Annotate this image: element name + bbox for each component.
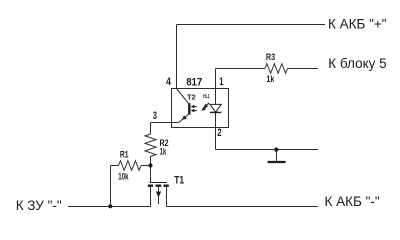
- junction node ground tap: [274, 148, 278, 152]
- light arrow into base lower: [191, 109, 197, 113]
- svg-text:T2: T2: [187, 94, 196, 101]
- wire pin 3 stub: [151, 122, 179, 124]
- wire to battery plus (top horizontal): [177, 24, 326, 26]
- LED emission arrow upper: [204, 103, 210, 108]
- transistor T1 channel dash drain: [164, 184, 169, 186]
- LED HL1 cathode bar: [210, 111, 221, 113]
- svg-text:1k: 1k: [266, 74, 275, 84]
- wire bottom rail right (to K AKB minus): [167, 206, 319, 208]
- wire R1 right lead: [141, 165, 151, 167]
- transistor T1 source vertical: [150, 187, 152, 207]
- svg-text:3: 3: [153, 110, 157, 122]
- wire LED cathode segment inside box: [215, 112, 217, 127]
- wire R3 left lead: [216, 68, 266, 70]
- svg-text:R3: R3: [266, 52, 275, 62]
- svg-text:К АКБ "-": К АКБ "-": [325, 194, 380, 209]
- svg-text:HL1: HL1: [203, 94, 210, 100]
- svg-text:К блоку 5: К блоку 5: [328, 56, 386, 71]
- wire pin 1 vertical: [215, 69, 217, 89]
- wire pin 4 vertical: [176, 25, 178, 89]
- LED HL1 triangle: [210, 104, 221, 112]
- wire LED anode segment inside box: [215, 89, 217, 105]
- light arrow into base upper: [191, 105, 197, 109]
- transistor T2 emitter line: [179, 114, 190, 123]
- transistor T1 channel dash bulk: [156, 184, 162, 186]
- LED emission arrow lower: [202, 106, 208, 111]
- svg-text:R1: R1: [120, 149, 129, 159]
- transistor T1 gate plate: [150, 182, 167, 184]
- wire R3 right lead to block 5: [288, 68, 319, 70]
- wire bottom rail left (from K ZU minus): [68, 206, 151, 208]
- svg-text:2: 2: [217, 127, 221, 139]
- wire left vertical from R1 to bottom rail: [110, 166, 112, 207]
- resistor R3: [265, 64, 288, 74]
- resistor R2: [145, 134, 156, 157]
- svg-text:К ЗУ "-": К ЗУ "-": [16, 198, 62, 213]
- wire R1 left lead: [111, 165, 119, 167]
- transistor T2 emitter arrowhead: [182, 115, 187, 120]
- wire R2 bottom lead: [150, 157, 152, 166]
- svg-text:T1: T1: [174, 175, 184, 187]
- wire T1 gate lead: [150, 166, 152, 183]
- transistor T1 bulk line with arrow: [156, 187, 161, 204]
- svg-text:1: 1: [219, 76, 223, 88]
- transistor T2 collector line: [177, 89, 190, 105]
- svg-text:4: 4: [166, 76, 172, 88]
- transistor T1 channel dash source: [148, 184, 153, 186]
- wire ground stub: [276, 150, 278, 162]
- svg-text:817: 817: [186, 77, 202, 89]
- transistor T2 base bar: [188, 103, 190, 114]
- wire R2 top lead: [150, 123, 152, 135]
- junction node bottom rail left: [108, 204, 112, 208]
- optocoupler U1 body box 817: [172, 89, 229, 128]
- wire bottom right horizontal to ground node: [216, 149, 319, 151]
- svg-text:К АКБ "+": К АКБ "+": [328, 17, 387, 32]
- svg-text:10k: 10k: [118, 171, 129, 181]
- resistor R1: [119, 161, 142, 171]
- transistor T1 drain vertical: [166, 187, 168, 207]
- ground symbol bar: [268, 161, 286, 163]
- wire pin 2 vertical: [215, 128, 217, 150]
- svg-text:1k: 1k: [160, 146, 167, 156]
- junction node R1-R2-gate: [148, 163, 152, 167]
